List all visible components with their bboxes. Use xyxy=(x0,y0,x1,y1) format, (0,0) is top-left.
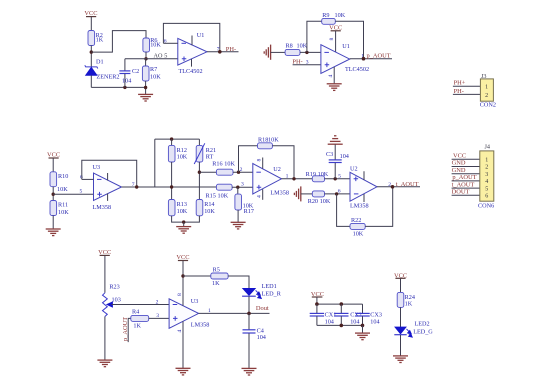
wire R21 bottom to R14 xyxy=(198,162,200,200)
node CX2 top xyxy=(340,302,344,306)
wire AO net xyxy=(125,58,178,60)
resistor R16 xyxy=(212,161,235,176)
resistor R9 xyxy=(322,12,346,24)
op-amp U3 (LM358, section A) xyxy=(93,164,122,211)
svg-text:10K: 10K xyxy=(57,186,68,193)
wire R18 to output xyxy=(272,146,294,179)
resistor R17 xyxy=(235,187,254,215)
ground (below U1b) xyxy=(327,84,342,91)
power VCC (LED2) xyxy=(394,273,407,280)
wire VCC to rail xyxy=(316,297,318,304)
svg-text:2: 2 xyxy=(156,299,159,305)
capacitor C2 xyxy=(119,59,139,88)
wire R23 to ground xyxy=(104,317,106,360)
svg-text:R20: R20 xyxy=(308,198,318,205)
svg-text:RT: RT xyxy=(206,154,214,161)
wire R6 bottom xyxy=(145,52,147,59)
ground (below R17) xyxy=(231,222,246,229)
svg-text:2: 2 xyxy=(485,93,488,99)
wire stub to ground xyxy=(362,325,364,333)
wire R4 to U3b + input xyxy=(149,317,169,319)
power VCC (U1b pin 8) xyxy=(329,25,342,32)
capacitor CX1 xyxy=(310,304,337,325)
node R5 branch xyxy=(181,274,184,277)
svg-text:8: 8 xyxy=(329,38,335,41)
wire R16 to U2a inverting input xyxy=(233,171,253,173)
ground (inverted, above C3) xyxy=(328,136,343,144)
svg-text:TLC4502: TLC4502 xyxy=(345,66,369,73)
wire D1 bottom xyxy=(90,75,92,87)
svg-text:J3: J3 xyxy=(481,73,487,80)
svg-text:5: 5 xyxy=(338,174,341,180)
node VCC junction xyxy=(315,302,319,306)
svg-text:1K: 1K xyxy=(212,280,220,287)
svg-text:1K: 1K xyxy=(133,323,141,330)
svg-text:R14: R14 xyxy=(204,201,214,208)
pin 4 stub U3b xyxy=(182,321,184,368)
ground (caps) xyxy=(355,333,370,340)
svg-text:1: 1 xyxy=(485,85,488,91)
svg-text:C2: C2 xyxy=(132,68,139,75)
svg-text:8: 8 xyxy=(177,293,183,296)
wire t_AOUT to J4 pin5 xyxy=(452,187,480,189)
svg-text:R22: R22 xyxy=(351,217,361,224)
node C2 bottom xyxy=(123,86,126,89)
wire VCC to pin 8 xyxy=(335,31,337,52)
svg-text:PH+: PH+ xyxy=(454,80,466,87)
op-amp U1 (TLC4502, left half) xyxy=(178,32,207,75)
wire VCC down to pin 8 xyxy=(182,261,184,306)
svg-text:PH-: PH- xyxy=(226,46,236,53)
op-amp U2 (LM358, section B) xyxy=(350,166,377,210)
wire R21 mid to R16 xyxy=(199,171,216,173)
wire R11 to ground xyxy=(52,216,54,229)
ground (below C4) xyxy=(242,368,257,375)
wire R7 to ground xyxy=(145,81,147,94)
svg-text:103: 103 xyxy=(112,297,121,304)
wire U3b output (Dout) xyxy=(199,312,270,314)
pin 4 stub U1a xyxy=(191,59,193,67)
wire caps top rail xyxy=(317,303,363,305)
wire bottom rail (D1/C2/R7) xyxy=(91,86,145,88)
svg-text:LED_G: LED_G xyxy=(413,329,433,336)
svg-text:C3: C3 xyxy=(326,151,333,158)
svg-text:6: 6 xyxy=(338,189,341,195)
thermistor R21 RT xyxy=(194,139,216,164)
wire R24 to LED2 xyxy=(400,307,402,327)
wire ground to R20 xyxy=(301,193,313,195)
svg-text:10K: 10K xyxy=(150,74,161,81)
svg-text:PH-: PH- xyxy=(454,88,464,95)
svg-text:R13: R13 xyxy=(177,201,187,208)
svg-text:3: 3 xyxy=(485,172,488,178)
wire R8 to U1b inverting input xyxy=(300,51,321,53)
svg-text:5: 5 xyxy=(80,188,83,194)
wire R15 to U2a + input xyxy=(232,186,253,188)
wire VCC to R10 xyxy=(52,158,54,172)
wire PH+ to J3 pin1 xyxy=(453,85,481,87)
wire LED1 to Dout line xyxy=(248,296,250,313)
svg-text:AO: AO xyxy=(154,53,163,60)
svg-text:CX2: CX2 xyxy=(350,311,362,318)
net label PH- at + input xyxy=(292,59,308,66)
wire U3a output to R15 xyxy=(122,186,217,188)
pin 6 wire (inverting input) xyxy=(163,42,177,44)
wire GND to J4 pin2 xyxy=(452,166,480,168)
svg-text:10K: 10K xyxy=(320,198,331,205)
wire wiper to U3b inverting input xyxy=(112,304,170,306)
wire divider to U3a + input xyxy=(53,193,93,195)
wire U2a output xyxy=(282,178,313,180)
svg-text:10K: 10K xyxy=(58,209,69,216)
svg-text:U1: U1 xyxy=(197,32,205,39)
svg-text:U3: U3 xyxy=(93,164,101,171)
svg-text:U3: U3 xyxy=(191,298,199,305)
node ground tap xyxy=(361,324,365,328)
svg-text:5: 5 xyxy=(164,53,167,60)
resistor R22 xyxy=(350,217,365,238)
node output junction U1b xyxy=(362,57,366,61)
svg-text:10K: 10K xyxy=(177,154,188,161)
ground (below R7) xyxy=(138,94,153,101)
node R22 tap xyxy=(335,192,338,195)
power VCC (pot R23) xyxy=(98,249,111,256)
power VCC (U3b pin 8) xyxy=(176,254,189,261)
resistor R5 xyxy=(211,267,228,287)
wire R12 bottom to R13 xyxy=(171,162,173,200)
capacitor C4 xyxy=(243,313,266,368)
connector J3 CON2 xyxy=(480,73,496,109)
wire VCC branch to R5 xyxy=(183,275,211,277)
node output junction xyxy=(218,50,222,54)
node junction R2/D1 xyxy=(90,50,93,53)
node rail/R12 junction xyxy=(170,137,173,140)
wire R22 to output xyxy=(365,187,393,227)
wire U2b output xyxy=(377,186,420,188)
wire R20 to U2b inverting input xyxy=(325,193,351,195)
wire PH- to J3 pin2 xyxy=(453,93,481,95)
node Dout junction xyxy=(247,312,251,316)
node R17 tap xyxy=(236,186,239,189)
resistor R14 xyxy=(196,200,215,216)
resistor R20 xyxy=(308,191,331,205)
op-amp U3 (LM358, section B) xyxy=(169,298,209,329)
wire feedback R22 loop xyxy=(337,194,350,227)
svg-text:LM358: LM358 xyxy=(93,204,112,211)
node divider junction xyxy=(52,193,55,196)
ground (below R23) xyxy=(97,360,112,367)
wire feedback U1b left xyxy=(307,21,322,52)
pin 4 stub U1b xyxy=(333,67,335,84)
svg-text:CX1: CX1 xyxy=(325,311,337,318)
svg-text:1K: 1K xyxy=(405,301,413,308)
node CX2 bottom xyxy=(340,324,344,328)
resistor R4 xyxy=(131,308,149,329)
resistor R8 xyxy=(285,42,308,55)
svg-text:4: 4 xyxy=(328,75,334,78)
wire ground to R8 xyxy=(271,51,286,53)
svg-text:U1: U1 xyxy=(342,43,350,50)
wire stub to ground xyxy=(183,222,185,226)
svg-text:LM358: LM358 xyxy=(270,189,289,196)
svg-text:3: 3 xyxy=(241,181,244,187)
wire DOUT to J4 pin6 xyxy=(452,194,480,196)
node AO label xyxy=(154,53,168,60)
zener D1 ZENER2 xyxy=(85,59,120,81)
svg-text:U2: U2 xyxy=(350,166,358,173)
svg-text:3: 3 xyxy=(156,313,159,319)
svg-text:R4: R4 xyxy=(132,308,139,315)
node R22 joins output xyxy=(391,185,395,189)
power VCC (top-left) xyxy=(84,10,97,17)
svg-text:1: 1 xyxy=(485,158,488,164)
svg-text:10K: 10K xyxy=(204,208,215,215)
svg-text:104: 104 xyxy=(340,153,349,160)
resistor R24 xyxy=(397,292,415,307)
ground (left-pointing, at R8) xyxy=(264,45,270,60)
wire R17 to ground xyxy=(237,210,239,222)
node bridge bottom center xyxy=(182,220,185,223)
node R21/R14 midpoint xyxy=(198,171,201,174)
pin 8 stub U2b xyxy=(363,171,365,180)
ground (left-pointing, at R20) xyxy=(294,186,300,201)
ground (bridge bottom) xyxy=(176,227,191,234)
svg-text:1: 1 xyxy=(286,174,289,180)
svg-text:R16: R16 xyxy=(212,161,222,168)
svg-text:6: 6 xyxy=(485,194,488,200)
svg-text:104: 104 xyxy=(325,318,334,325)
svg-text:104: 104 xyxy=(257,334,266,341)
svg-text:LM358: LM358 xyxy=(350,203,369,210)
wire output up to bridge rail xyxy=(154,139,156,187)
svg-text:104: 104 xyxy=(370,318,379,325)
resistor R11 xyxy=(50,201,69,217)
power VCC (caps) xyxy=(311,291,324,298)
wire R5 to LED1 xyxy=(228,276,249,288)
svg-text:1: 1 xyxy=(208,308,211,314)
svg-text:10K: 10K xyxy=(335,12,346,19)
pin 4 stub U2b xyxy=(363,194,365,202)
wire VCC to R23 xyxy=(104,256,106,293)
resistor R2 xyxy=(88,31,104,46)
svg-text:t_AOUT: t_AOUT xyxy=(396,181,419,188)
resistor R18 xyxy=(258,137,280,149)
wire R2 bottom xyxy=(90,46,92,67)
svg-text:5: 5 xyxy=(485,186,488,192)
node R12/R13 midpoint xyxy=(170,185,173,188)
LED LED1 (LED_R) xyxy=(242,283,282,298)
svg-text:t_AOUT: t_AOUT xyxy=(452,181,475,188)
op-amp U2 (LM358, section A) xyxy=(253,164,289,197)
pin 8 stub U2a xyxy=(262,158,264,169)
wire LED2 to ground xyxy=(400,335,402,356)
wire VCC to R24 xyxy=(400,279,402,293)
svg-text:R19: R19 xyxy=(306,171,316,178)
svg-text:8: 8 xyxy=(257,159,263,162)
ground (below LED2) xyxy=(393,356,408,363)
pin 4 stub U2a xyxy=(262,189,264,200)
svg-text:GND: GND xyxy=(452,167,466,174)
svg-text:VCC: VCC xyxy=(453,153,466,160)
svg-text:D1: D1 xyxy=(96,59,104,66)
wire VCC to J4 pin1 xyxy=(452,158,480,160)
op-amp U1 (TLC4502, right half) xyxy=(321,43,369,74)
power VCC (R10 divider) xyxy=(47,152,60,159)
svg-text:LED2: LED2 xyxy=(415,321,430,328)
wire U1b output xyxy=(350,58,392,60)
ground (below R11) xyxy=(46,229,61,236)
svg-text:LED1: LED1 xyxy=(262,283,277,290)
svg-text:R8: R8 xyxy=(286,42,293,49)
ground (below U3b) xyxy=(176,368,191,375)
wire feedback U1b right xyxy=(335,21,363,58)
svg-text:R23: R23 xyxy=(109,284,119,291)
pin 8 stub U3a xyxy=(107,173,109,181)
resistor R15 xyxy=(206,184,233,199)
resistor R19 xyxy=(306,171,329,182)
resistor R12 xyxy=(168,139,187,162)
svg-text:CON6: CON6 xyxy=(478,203,494,210)
node R7 bottom junction xyxy=(144,86,147,89)
wire bridge bottom xyxy=(172,216,200,222)
svg-text:6: 6 xyxy=(164,38,167,44)
svg-text:p_AOUT: p_AOUT xyxy=(367,53,391,60)
svg-text:R10: R10 xyxy=(58,173,68,180)
potentiometer R23 xyxy=(103,284,121,317)
svg-text:7: 7 xyxy=(132,182,135,188)
svg-text:R18: R18 xyxy=(258,137,268,144)
svg-text:ZENER2: ZENER2 xyxy=(97,74,120,81)
resistor R10 xyxy=(50,172,68,193)
svg-text:DOUT: DOUT xyxy=(452,189,470,196)
svg-text:104: 104 xyxy=(122,77,131,84)
svg-text:10K: 10K xyxy=(224,161,235,168)
svg-text:R9: R9 xyxy=(322,12,329,19)
svg-text:1K: 1K xyxy=(96,36,104,43)
wire U1a output xyxy=(207,51,239,53)
svg-text:4: 4 xyxy=(257,195,263,198)
svg-text:LED_R: LED_R xyxy=(262,291,282,298)
svg-text:R11: R11 xyxy=(58,202,68,209)
svg-text:CON2: CON2 xyxy=(480,102,496,109)
svg-text:4: 4 xyxy=(177,330,183,333)
wire feedback U3a xyxy=(82,160,137,187)
svg-text:U2: U2 xyxy=(273,166,281,173)
svg-text:2: 2 xyxy=(240,167,243,173)
pin 8 stub U1a xyxy=(191,36,193,46)
node AO junction xyxy=(144,57,147,60)
svg-text:4: 4 xyxy=(485,179,488,185)
svg-text:10K: 10K xyxy=(177,208,188,215)
svg-text:10K: 10K xyxy=(297,42,308,49)
wire + input U1b xyxy=(293,64,321,66)
LED LED2 (LED_G) xyxy=(394,321,433,338)
svg-text:Dout: Dout xyxy=(256,305,269,312)
node C3 tap xyxy=(334,177,337,180)
wire bridge top rail xyxy=(155,138,200,140)
wire R10 to R11 xyxy=(52,187,54,201)
wire p_AOUT stub xyxy=(128,318,131,342)
svg-text:VCC: VCC xyxy=(84,10,97,17)
resistor R6 xyxy=(143,37,161,52)
wire R19 to U2b + input xyxy=(325,178,351,180)
pin 6 wire U3a xyxy=(82,178,94,180)
wire p_AOUT to J4 pin4 xyxy=(452,180,480,182)
wire feedback U2a xyxy=(239,146,258,172)
pin 4 stub U3a xyxy=(107,194,109,201)
svg-text:10K: 10K xyxy=(150,42,161,49)
svg-text:R7: R7 xyxy=(150,66,157,73)
svg-text:CX3: CX3 xyxy=(370,311,382,318)
wire GND to J4 pin3 xyxy=(452,173,480,175)
node feedback tap U2a xyxy=(237,171,240,174)
node feedback joins output xyxy=(135,185,138,188)
wire caps bottom rail xyxy=(317,324,363,326)
svg-text:LM358: LM358 xyxy=(191,321,210,328)
capacitor C3 xyxy=(326,144,349,178)
wire feedback U1a xyxy=(163,23,219,51)
svg-text:R15: R15 xyxy=(206,193,216,200)
svg-text:10K: 10K xyxy=(218,193,229,200)
svg-text:GND: GND xyxy=(452,160,466,167)
connector J4 CON6 xyxy=(478,144,494,210)
svg-text:J4: J4 xyxy=(485,144,491,151)
node feedback tap xyxy=(305,51,308,54)
capacitor CX2 xyxy=(334,304,362,325)
svg-text:104: 104 xyxy=(350,318,359,325)
svg-text:10K: 10K xyxy=(268,137,279,144)
resistor R7 xyxy=(142,59,161,81)
svg-text:10K: 10K xyxy=(318,171,329,178)
svg-text:2: 2 xyxy=(485,165,488,171)
svg-text:TLC4502: TLC4502 xyxy=(179,68,203,75)
wire loop junction to R6 top xyxy=(91,31,146,52)
svg-text:R17: R17 xyxy=(244,208,254,215)
svg-text:p_AOUT: p_AOUT xyxy=(452,174,476,181)
wire VCC to R2 xyxy=(90,17,92,31)
resistor R13 xyxy=(168,200,187,216)
node feedback joins U2a output xyxy=(292,177,295,180)
capacitor CX3 xyxy=(355,304,382,325)
svg-text:R5: R5 xyxy=(213,267,220,274)
svg-text:10K: 10K xyxy=(353,230,364,237)
